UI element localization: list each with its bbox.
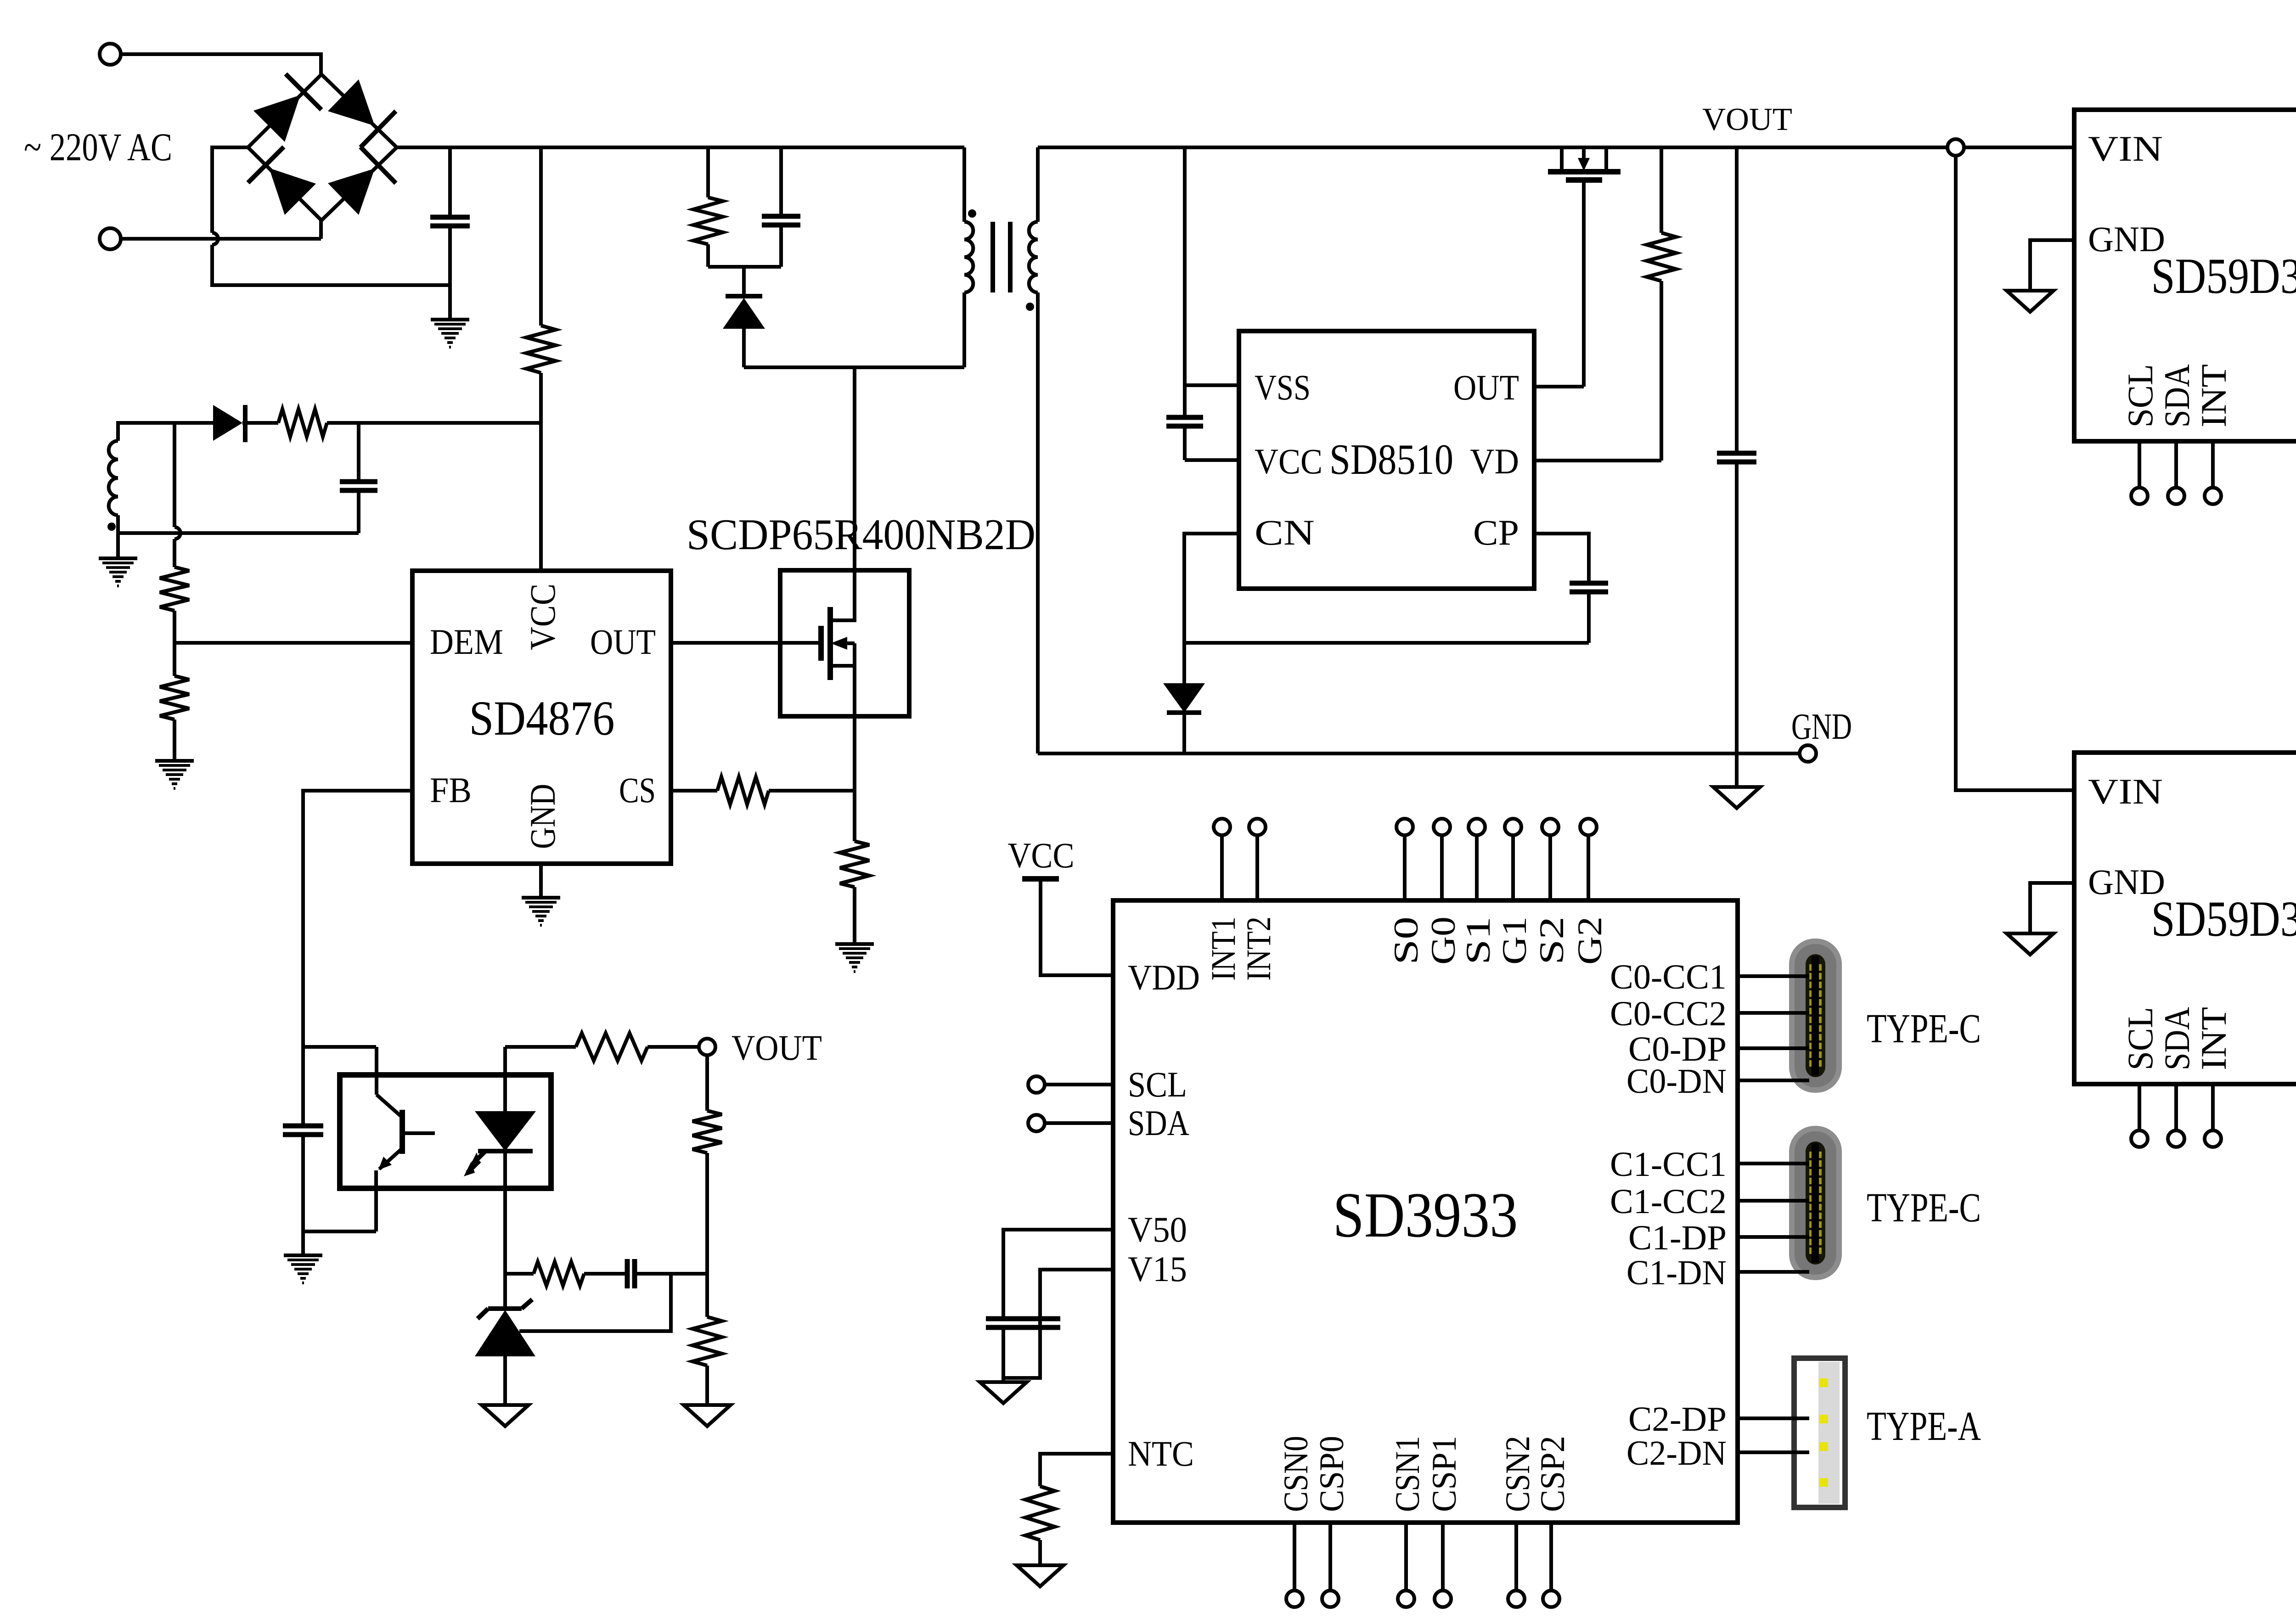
diode D7 (CN to GND rail) <box>1182 643 1186 683</box>
svg-text:CSN1: CSN1 <box>1389 1436 1427 1512</box>
aux diode D5 <box>213 405 242 441</box>
svg-text:VD: VD <box>1470 441 1519 481</box>
svg-text:TYPE-C: TYPE-C <box>1867 1185 1981 1231</box>
terminal G1 (SD3933 top pin) <box>1505 819 1521 835</box>
svg-text:SCDP65R400NB2D: SCDP65R400NB2D <box>687 510 1035 559</box>
aux resistor R2 <box>245 421 278 425</box>
svg-text:V15: V15 <box>1128 1249 1187 1289</box>
ground (earth) under SD4876 <box>522 896 560 899</box>
FB filter capacitor C7 <box>283 1124 323 1129</box>
svg-text:GND: GND <box>523 784 563 849</box>
emitter junction wire <box>303 1230 376 1233</box>
ground triangle under Z1 <box>482 1405 529 1426</box>
MOSFET Q1 body arrow <box>842 641 855 645</box>
svg-text:SCL: SCL <box>1128 1064 1187 1104</box>
svg-text:VOUT: VOUT <box>732 1028 822 1068</box>
svg-text:VOUT: VOUT <box>1702 102 1792 137</box>
transformer T1 secondary winding <box>1036 147 1040 222</box>
feedback resistor R9 (to VOUT) <box>576 1033 647 1061</box>
pin wire C0-CC2 <box>1738 1011 1809 1015</box>
MOSFET Q1 enclosure box <box>780 570 909 716</box>
svg-text:CP: CP <box>1473 512 1519 552</box>
snubber bottom wire <box>708 265 781 269</box>
C6 ground stub <box>1735 753 1739 787</box>
VD wire <box>1534 459 1661 462</box>
svg-text:SD4876: SD4876 <box>469 691 615 746</box>
svg-text:C0-CC2: C0-CC2 <box>1610 995 1727 1033</box>
VD resistor R8 <box>1660 147 1663 233</box>
svg-text:CSN0: CSN0 <box>1277 1436 1315 1512</box>
V15 wire <box>1003 1270 1113 1378</box>
terminal CSN0 (SD3933 bottom pin) <box>1286 1591 1303 1607</box>
DEM wire <box>174 641 412 645</box>
wire bridge left corner down (with hop) <box>212 147 248 233</box>
secondary GND rail <box>1038 752 1800 755</box>
VSS stub <box>1185 383 1239 387</box>
wire snubber to transformer primary <box>744 365 964 369</box>
svg-text:G0: G0 <box>1424 916 1463 965</box>
SDA terminal (SD3933) <box>1028 1115 1045 1131</box>
VOUT distribution wire to converter 2 <box>1956 156 2074 790</box>
MOSFET Q1 source wire <box>830 664 855 668</box>
svg-text:SD3933: SD3933 <box>1333 1180 1518 1251</box>
buck converter U4 SD59D31 #2 <box>2074 753 2296 1084</box>
transformer T1 primary winding <box>962 147 966 222</box>
svg-text:VCC: VCC <box>523 584 563 650</box>
pin wire C2-DN <box>1738 1450 1809 1454</box>
SDA terminal #2 <box>2174 1084 2178 1130</box>
svg-text:VDD: VDD <box>1128 957 1200 997</box>
svg-text:GND: GND <box>2088 862 2165 902</box>
wire N to bridge bottom <box>121 237 321 241</box>
svg-text:G2: G2 <box>1571 916 1609 965</box>
phototransistor emitter arrow <box>378 1157 392 1170</box>
aux rail to VCC node <box>359 421 541 425</box>
compensation resistor R11 <box>505 1272 534 1276</box>
terminal CSP2 (SD3933 bottom pin) <box>1543 1591 1559 1607</box>
INT terminal #2 <box>2211 1084 2215 1130</box>
NTC wire <box>1040 1454 1113 1486</box>
Q2 body arrow <box>1582 147 1586 161</box>
terminal CSN1 (SD3933 bottom pin) <box>1398 1591 1414 1607</box>
V50 wire <box>1003 1230 1113 1319</box>
startup resistor R1 <box>539 147 543 326</box>
SCL terminal (SD3933) <box>1028 1076 1045 1093</box>
VSS sense wire <box>1183 147 1187 417</box>
FB wire to collector <box>303 1045 376 1049</box>
CS resistor R5 <box>717 777 769 804</box>
svg-text:S2: S2 <box>1533 916 1571 965</box>
optocoupler phototransistor <box>375 1047 378 1095</box>
wire L to bridge top <box>319 52 323 74</box>
pin wire C0-DN <box>1738 1079 1809 1082</box>
terminal CSP0 (SD3933 bottom pin) <box>1322 1591 1339 1607</box>
GND terminal <box>1800 745 1816 762</box>
bridge diode D1 (top-left edge) <box>253 95 300 142</box>
pin wire C0-DP <box>1738 1046 1809 1050</box>
output capacitor C6 <box>1735 147 1739 453</box>
pin wire C2-DP <box>1738 1417 1809 1420</box>
svg-text:SD59D31: SD59D31 <box>2151 891 2296 947</box>
svg-text:C0-CC1: C0-CC1 <box>1610 958 1727 996</box>
svg-text:SDA: SDA <box>2157 364 2197 427</box>
SD4876 GND pin wire <box>539 864 543 898</box>
VCC feed wire to SD4876 <box>539 423 543 571</box>
ground triangle under C9 <box>980 1382 1027 1403</box>
bulk capacitor C1 <box>448 147 452 217</box>
svg-text:C2-DP: C2-DP <box>1628 1400 1727 1439</box>
AC input terminal L <box>100 44 121 65</box>
bridge diode D2 (top-right edge) <box>328 79 375 126</box>
svg-text:INT: INT <box>2194 1007 2234 1070</box>
divider resistor R12 <box>692 1317 722 1366</box>
SD8510 OUT stub <box>1534 385 1584 388</box>
svg-text:S0: S0 <box>1387 916 1425 965</box>
terminal S2 (SD3933 top pin) <box>1542 819 1559 835</box>
divider junction wire <box>705 1274 709 1317</box>
CS wire <box>671 789 717 793</box>
svg-text:SDA: SDA <box>2157 1007 2197 1070</box>
terminal INT2 (SD3933 top pin) <box>1249 819 1266 835</box>
USB PD controller U6 SD3933 <box>1113 900 1738 1523</box>
snubber capacitor C3 <box>779 147 783 216</box>
ground (earth) under FB cap <box>284 1254 322 1257</box>
svg-text:OUT: OUT <box>590 622 656 662</box>
svg-text:VCC: VCC <box>1255 441 1322 481</box>
DEM divider resistor R3 (with hop) <box>173 423 176 527</box>
svg-text:DEM: DEM <box>430 622 503 662</box>
svg-text:SDA: SDA <box>1128 1103 1189 1143</box>
ground triangle at GND #1 <box>2007 291 2054 312</box>
SCL terminal #2 <box>2138 1084 2141 1130</box>
aux winding L1 <box>118 423 213 441</box>
ground (earth) under R6 <box>835 942 874 946</box>
svg-text:SD59D31: SD59D31 <box>2151 248 2296 304</box>
terminal CSP1 (SD3933 bottom pin) <box>1435 1591 1451 1607</box>
svg-text:FB: FB <box>430 770 472 810</box>
GND pin wire #1 <box>2030 240 2074 291</box>
buck converter U3 SD59D31 #1 <box>2074 110 2296 441</box>
GND pin wire #2 <box>2030 883 2074 933</box>
capacitor C5 (CP) <box>1570 581 1608 586</box>
aux capacitor C2 <box>357 423 360 482</box>
svg-text:OUT: OUT <box>1453 367 1519 407</box>
svg-text:VIN: VIN <box>2088 771 2163 811</box>
svg-text:C1-DP: C1-DP <box>1628 1219 1727 1257</box>
terminal CSN2 (SD3933 bottom pin) <box>1508 1591 1525 1607</box>
zener reference wire <box>519 1274 671 1331</box>
ground triangle under C6 <box>1713 787 1760 808</box>
transformer secondary dot <box>1026 303 1034 311</box>
USB TYPE-C connector J1 <box>1789 939 1842 1093</box>
compensation capacitor C8 <box>625 1259 630 1288</box>
VOUT node <box>1947 139 1964 156</box>
zener diode Z1 <box>503 1274 507 1309</box>
svg-text:GND: GND <box>1791 707 1852 747</box>
svg-text:~ 220V AC: ~ 220V AC <box>24 125 172 169</box>
svg-text:VSS: VSS <box>1255 367 1311 407</box>
svg-text:TYPE-A: TYPE-A <box>1867 1404 1981 1449</box>
svg-text:V50: V50 <box>1128 1209 1187 1249</box>
terminal INT1 (SD3933 top pin) <box>1214 819 1230 835</box>
LED anode wire <box>505 1045 576 1049</box>
Q2 gate wire to OUT pin <box>1582 180 1586 387</box>
svg-text:C0-DN: C0-DN <box>1626 1062 1727 1101</box>
svg-text:VIN: VIN <box>2088 129 2163 169</box>
CN wire <box>1184 534 1239 643</box>
svg-text:TYPE-C: TYPE-C <box>1867 1006 1981 1051</box>
bridge output rail <box>397 146 964 149</box>
pin wire C1-DP <box>1738 1235 1809 1239</box>
sync-rect MOSFET Q2 on VOUT rail <box>1560 147 1564 172</box>
terminal VOUT (secondary feedback) <box>699 1039 715 1055</box>
VOUT rail <box>1038 146 2075 149</box>
secondary return wire <box>1036 292 1040 753</box>
CP wire <box>1534 534 1589 583</box>
divider resistor R10 <box>705 1055 709 1111</box>
svg-text:SCL: SCL <box>2120 1007 2160 1070</box>
terminal S1 (SD3933 top pin) <box>1469 819 1485 835</box>
INT terminal #1 <box>2211 441 2215 488</box>
SCL terminal #1 <box>2138 441 2141 488</box>
snubber resistor R7 <box>706 147 710 197</box>
USB TYPE-A connector J3 <box>1794 1358 1845 1507</box>
transformer primary dot <box>968 209 976 218</box>
svg-text:S1: S1 <box>1459 916 1497 965</box>
snubber diode D6 <box>742 267 746 298</box>
svg-text:SD8510: SD8510 <box>1329 436 1453 483</box>
svg-text:CSP1: CSP1 <box>1425 1436 1463 1512</box>
ground (earth) under C1 <box>431 318 469 321</box>
capacitor C9 (V50/V15) <box>986 1316 1060 1321</box>
ground triangle under R13 <box>1017 1565 1064 1586</box>
DEM divider resistor R4 <box>173 643 176 676</box>
bridge rectifier diamond <box>248 74 397 220</box>
aux bottom wire <box>118 531 359 535</box>
capacitor C4 (VSS-VCC) <box>1166 415 1203 420</box>
svg-text:G1: G1 <box>1496 916 1534 965</box>
optocoupler LED D8 <box>503 1047 507 1111</box>
sync rectifier controller U2 SD8510 <box>1239 331 1534 589</box>
ground triangle at GND #2 <box>2007 933 2054 955</box>
MOSFET Q1 gate bar <box>818 626 824 661</box>
ground (earth) under aux winding <box>99 557 137 560</box>
svg-text:C1-DN: C1-DN <box>1626 1254 1727 1292</box>
flyback controller U1 SD4876 <box>412 571 671 864</box>
CN-CP bottom wire <box>1184 641 1589 645</box>
USB TYPE-C connector J2 <box>1789 1126 1842 1280</box>
svg-text:INT1: INT1 <box>1204 916 1243 981</box>
pin wire C1-CC2 <box>1738 1199 1809 1203</box>
svg-text:CN: CN <box>1255 512 1315 552</box>
svg-text:C1-CC1: C1-CC1 <box>1610 1145 1727 1184</box>
terminal S0 (SD3933 top pin) <box>1396 819 1413 835</box>
pin wire C1-CC1 <box>1738 1162 1809 1165</box>
aux winding polarity dot <box>107 523 116 531</box>
svg-text:INT: INT <box>2194 364 2234 427</box>
svg-text:CSN2: CSN2 <box>1499 1436 1537 1512</box>
svg-text:INT2: INT2 <box>1240 916 1278 981</box>
VCC stub SD8510 <box>1185 458 1239 462</box>
svg-text:CSP2: CSP2 <box>1534 1436 1572 1512</box>
svg-text:SCL: SCL <box>2120 364 2160 427</box>
NTC resistor R13 <box>1025 1486 1055 1540</box>
FB wire <box>303 791 412 1126</box>
MOSFET Q1 drain wire <box>830 367 855 620</box>
ground triangle under R12 <box>684 1405 731 1426</box>
AC input terminal N <box>100 228 121 249</box>
bridge diode D4 (bottom-right edge) <box>328 169 375 215</box>
ground (earth) under R4 <box>155 759 194 763</box>
OUT gate wire <box>671 641 821 645</box>
terminal G0 (SD3933 top pin) <box>1434 819 1450 835</box>
LED light arrows <box>473 1152 485 1164</box>
svg-text:CS: CS <box>619 770 656 810</box>
SDA terminal #1 <box>2174 441 2178 488</box>
MOSFET Q1 channel bar <box>827 607 833 680</box>
transformer core <box>990 222 995 292</box>
svg-text:CSP0: CSP0 <box>1313 1436 1351 1512</box>
svg-text:GND: GND <box>2088 219 2165 259</box>
optocoupler U5 box <box>340 1075 551 1188</box>
sense resistor R6 <box>840 841 869 887</box>
pin wire C1-DN <box>1738 1270 1809 1274</box>
svg-text:C1-CC2: C1-CC2 <box>1610 1182 1727 1221</box>
svg-text:VCC: VCC <box>1008 835 1075 875</box>
terminal G2 (SD3933 top pin) <box>1580 819 1597 835</box>
svg-text:C2-DN: C2-DN <box>1626 1434 1727 1473</box>
phototransistor base stub <box>402 1131 435 1135</box>
svg-text:NTC: NTC <box>1128 1433 1194 1473</box>
bridge diode D3 (bottom-left edge) <box>269 168 316 215</box>
pin wire C0-CC1 <box>1738 974 1809 978</box>
